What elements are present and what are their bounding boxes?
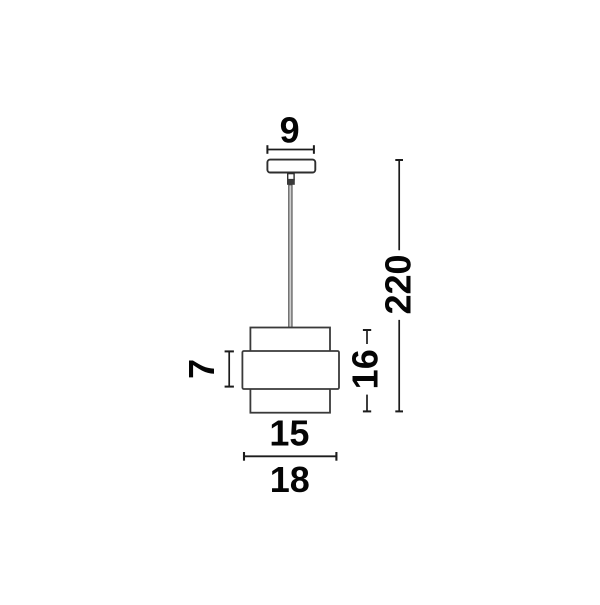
svg-text:9: 9 xyxy=(280,110,300,151)
canopy xyxy=(267,160,315,173)
dim line 220 xyxy=(395,160,403,411)
dim line 16 xyxy=(363,330,371,411)
shade middle band xyxy=(242,351,339,389)
dim line 9 xyxy=(267,145,314,154)
svg-text:7: 7 xyxy=(181,359,222,379)
cable connector xyxy=(287,174,295,185)
dim line 7 xyxy=(225,351,234,386)
shade top section xyxy=(250,328,330,353)
shade bottom section xyxy=(250,388,330,413)
svg-text:15: 15 xyxy=(269,413,309,454)
dim line 15/18 xyxy=(243,452,337,461)
cable xyxy=(289,185,292,328)
svg-text:18: 18 xyxy=(270,459,310,500)
svg-text:16: 16 xyxy=(344,349,385,389)
svg-text:220: 220 xyxy=(378,254,419,314)
